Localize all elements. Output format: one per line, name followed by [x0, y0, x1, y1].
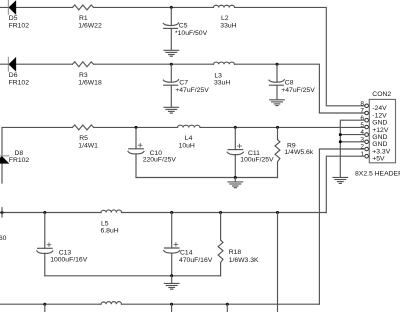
resistor R18 label: [229, 249, 259, 264]
wire row5 net (+3.3V rail): [0, 303, 319, 305]
svg-text:33uH: 33uH: [220, 23, 236, 30]
node junction pin4 gnd: [339, 133, 342, 136]
capacitor C5 label: [175, 22, 208, 37]
svg-text:1/4W5.6k: 1/4W5.6k: [285, 149, 314, 156]
capacitor C14 plus: [174, 243, 178, 247]
svg-text:R3: R3: [79, 72, 88, 79]
inductor L4 label: [179, 135, 195, 150]
svg-text:L3: L3: [214, 72, 222, 79]
capacitor C13: [37, 213, 53, 276]
inductor L4: [178, 125, 201, 127]
wire pin6 gnd bus: [340, 120, 365, 177]
capacitor C11 label: [240, 150, 274, 163]
svg-text:D5: D5: [9, 15, 18, 22]
ground below C14: [164, 276, 179, 289]
node junction pin3 gnd: [339, 140, 342, 143]
svg-text:100uF/25V: 100uF/25V: [240, 157, 274, 164]
node junction C14/row4: [170, 211, 173, 214]
svg-text:+3.3V: +3.3V: [372, 148, 390, 155]
node junction R9/row3: [276, 126, 279, 129]
svg-text:-12V: -12V: [372, 112, 387, 119]
svg-text:C14: C14: [180, 250, 193, 257]
svg-text:GND: GND: [372, 141, 387, 148]
svg-text:+47uF/25V: +47uF/25V: [175, 87, 209, 94]
resistor R3: [73, 62, 94, 67]
pin 8 circle: [365, 104, 369, 108]
partial label at left edge: [0, 235, 7, 242]
svg-text:1/6W18: 1/6W18: [78, 80, 102, 87]
inductor L3: [214, 62, 235, 64]
svg-text:CON2: CON2: [372, 91, 391, 98]
capacitor C8: [269, 64, 284, 99]
ground below C8: [270, 100, 285, 106]
resistor R1 label: [78, 15, 102, 30]
node junction C14 gnd: [170, 274, 173, 277]
pin 2 circle: [365, 147, 369, 151]
inductor L5 label: [101, 220, 119, 234]
ground below C7: [164, 107, 179, 113]
capacitor C13 label: [50, 250, 88, 264]
capacitor C13 plus: [47, 243, 51, 247]
capacitor C5: [163, 7, 178, 49]
capacitor C14 label: [179, 250, 213, 264]
svg-text:C13: C13: [59, 250, 72, 257]
diode D5 label: [9, 15, 30, 30]
svg-text:R1: R1: [79, 15, 88, 22]
svg-text:D6: D6: [9, 72, 18, 79]
svg-text:L2: L2: [221, 15, 229, 22]
node junction R18/row4: [219, 211, 222, 214]
node junction C10/row3: [135, 126, 138, 129]
diode D5: [8, 1, 16, 15]
header type label: [355, 171, 400, 178]
svg-text:R5: R5: [79, 135, 88, 142]
wire pin1 to row4: [326, 156, 365, 212]
svg-text:C7: C7: [179, 79, 188, 86]
pin 3 circle: [365, 140, 369, 144]
node junction row5 c: [226, 303, 229, 312]
svg-text:FR102: FR102: [9, 157, 30, 164]
pin 5 circle: [365, 125, 369, 129]
resistor R9 label: [285, 142, 314, 156]
ground below C5: [164, 50, 179, 56]
wire row4 net: [0, 212, 326, 214]
connector CON2 name: [372, 91, 391, 98]
inductor L2 label: [220, 15, 236, 30]
svg-text:+12V: +12V: [372, 127, 389, 134]
resistor R9: [275, 127, 280, 177]
svg-text:C8: C8: [285, 79, 294, 86]
pin net labels: [372, 105, 390, 162]
inductor L3 label: [214, 72, 230, 86]
svg-text:-24V: -24V: [372, 105, 387, 112]
svg-text:+5V: +5V: [372, 156, 385, 163]
diode D8: [0, 156, 9, 164]
capacitor C10 label: [143, 150, 177, 163]
capacitor C7 label: [175, 79, 209, 94]
node junction C11/row3: [234, 126, 237, 129]
svg-text:+47uF/25V: +47uF/25V: [281, 87, 315, 94]
resistor R5: [72, 125, 93, 130]
svg-text:C5: C5: [179, 22, 188, 29]
svg-text:1/6W22: 1/6W22: [78, 23, 102, 30]
wire row3 net (+12V): [2, 127, 365, 183]
svg-text:470uF/16V: 470uF/16V: [179, 257, 213, 264]
capacitor C11: [227, 127, 243, 177]
wire row1 net: [0, 7, 365, 105]
svg-text:*10uF/50V: *10uF/50V: [175, 30, 208, 37]
node junction row5 b: [170, 303, 173, 312]
pin 6 circle: [365, 118, 369, 122]
capacitor C10: [128, 127, 144, 177]
svg-text:D8: D8: [15, 150, 24, 157]
pin 7 circle: [365, 111, 369, 115]
diode D6 label: [9, 72, 30, 87]
node junction row4 left stub: [1, 208, 4, 217]
resistor R18: [218, 213, 223, 276]
wire gnd bus under C13/C14/R18: [45, 275, 221, 277]
svg-text:FR102: FR102: [9, 23, 30, 30]
ground below header: [333, 177, 348, 183]
wire row4 to bottom edge: [277, 213, 279, 312]
capacitor C7: [163, 64, 178, 107]
resistor R1: [73, 5, 94, 10]
svg-text:8: 8: [360, 100, 364, 107]
node junction C13/row4: [43, 211, 46, 214]
connector CON2 box: [369, 99, 395, 162]
inductor L5: [101, 210, 122, 213]
pin 1 circle: [365, 154, 369, 158]
svg-text:7: 7: [360, 108, 364, 115]
svg-text:GND: GND: [372, 120, 387, 127]
diode D8 label: [9, 150, 30, 164]
svg-text:60: 60: [0, 235, 7, 242]
node junction row5 a: [43, 303, 46, 312]
svg-text:33uH: 33uH: [214, 80, 230, 87]
node junction C8/row2: [276, 63, 279, 66]
svg-text:220uF/25V: 220uF/25V: [143, 157, 177, 164]
resistor R3 label: [78, 72, 102, 87]
pin 4 circle: [365, 133, 369, 137]
ground below C11: [228, 178, 243, 188]
svg-text:R18: R18: [229, 249, 242, 256]
svg-text:1000uF/16V: 1000uF/16V: [50, 257, 88, 264]
svg-text:GND: GND: [372, 134, 387, 141]
svg-text:8X2.5 HEADER: 8X2.5 HEADER: [355, 171, 400, 178]
svg-text:5: 5: [360, 122, 364, 129]
capacitor C14: [164, 213, 180, 276]
svg-text:FR102: FR102: [9, 80, 30, 87]
pin numbers: [360, 100, 364, 157]
svg-text:1/4W1: 1/4W1: [78, 143, 98, 150]
capacitor C11 plus: [238, 144, 242, 148]
capacitor C10 plus: [138, 143, 142, 147]
diode D6: [8, 57, 16, 71]
svg-text:L4: L4: [185, 135, 193, 142]
node junction C11 gnd: [234, 176, 237, 179]
resistor R5 label: [78, 135, 98, 150]
node junction C7/row2: [170, 63, 173, 66]
node junction row4 drop wire: [276, 211, 279, 214]
svg-text:6.8uH: 6.8uH: [101, 227, 119, 234]
wire row2 net: [0, 64, 365, 113]
node junction C5/row1: [170, 6, 173, 9]
inductor L2: [214, 5, 235, 7]
svg-text:10uH: 10uH: [179, 143, 195, 150]
wire pin2 to row5: [319, 149, 364, 304]
svg-text:1/6W3.3K: 1/6W3.3K: [229, 257, 259, 264]
inductor L6: [101, 302, 122, 305]
wire gnd bus under C10/C11: [136, 177, 278, 179]
capacitor C8 label: [281, 79, 315, 94]
